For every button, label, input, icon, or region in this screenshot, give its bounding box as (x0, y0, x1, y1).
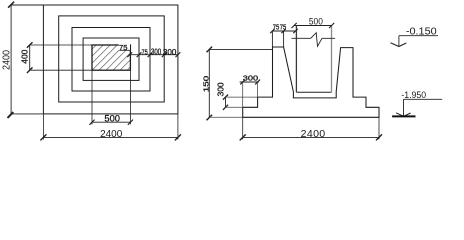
svg-text:400: 400 (20, 49, 30, 63)
svg-text:2400: 2400 (2, 50, 13, 70)
svg-text:150: 150 (202, 76, 211, 93)
svg-text:300: 300 (163, 48, 177, 57)
svg-text:500: 500 (309, 17, 323, 28)
svg-text:300: 300 (216, 82, 226, 96)
svg-text:-1.950: -1.950 (401, 90, 426, 100)
svg-text:2400: 2400 (301, 129, 326, 140)
svg-text:300: 300 (151, 48, 162, 57)
svg-text:300: 300 (243, 73, 258, 82)
svg-text:500: 500 (104, 113, 120, 123)
svg-text:2400: 2400 (100, 129, 123, 140)
svg-text:75 75: 75 75 (273, 22, 287, 31)
svg-text:75: 75 (142, 48, 148, 57)
